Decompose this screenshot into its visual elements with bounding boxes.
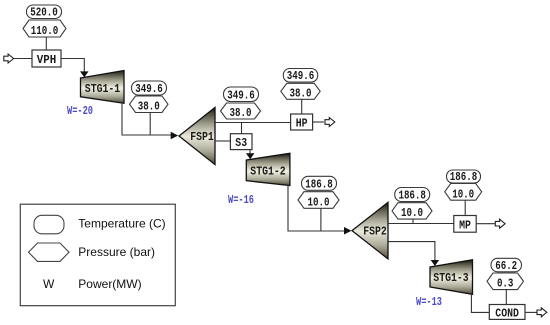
wire: input to VPH <box>14 58 32 60</box>
pressure indicator 10.0 (MP stream) <box>392 203 432 221</box>
svg-text:STG1-1: STG1-1 <box>85 83 120 96</box>
arrowhead: into FSP2 <box>344 227 352 235</box>
pressure indicator 110.0 (feed) <box>23 20 66 38</box>
wire: indicators to MP <box>464 200 466 215</box>
temperature indicator 349.6 (STG1-1 outlet) <box>132 81 167 96</box>
svg-text:W=-13: W=-13 <box>416 296 442 309</box>
temperature indicator 186.8 (MP stream) <box>395 188 430 203</box>
wire: indicators to COND <box>505 290 507 305</box>
splitter FSP1 <box>179 108 215 165</box>
svg-text:520.0: 520.0 <box>30 7 58 20</box>
wire: indicator tap STG1-1 outlet <box>149 113 151 136</box>
turbine STG1-3 <box>430 260 473 295</box>
svg-text:STG1-3: STG1-3 <box>433 272 468 285</box>
block heater VPH <box>32 50 61 67</box>
block block S3 <box>230 134 252 151</box>
svg-text:10.0: 10.0 <box>452 188 474 201</box>
svg-text:W: W <box>43 277 55 291</box>
arrowhead: into STG1-2 <box>246 153 255 159</box>
block block MP <box>454 216 476 233</box>
temperature indicator 349.6 (above HP) <box>283 69 317 84</box>
arrowhead: into STG1-3 <box>431 260 440 266</box>
temperature indicator 349.6 (above S3) <box>224 87 259 103</box>
svg-text:349.6: 349.6 <box>287 70 315 83</box>
wire: FSP2 to STG1-3 <box>388 242 435 260</box>
output arrow MP <box>495 219 505 228</box>
temperature indicator 186.8 (STG1-2 outlet) <box>302 176 337 191</box>
wire: indicators to HP <box>301 99 303 114</box>
wire: HP outlet <box>313 121 324 123</box>
svg-text:186.8: 186.8 <box>398 190 426 203</box>
svg-text:VPH: VPH <box>37 54 57 67</box>
temperature indicator 520.0 (feed) <box>27 5 62 20</box>
temperature indicator 186.8 (above MP) <box>447 170 481 184</box>
wire: FSP1 to HP <box>215 122 291 124</box>
wire: STG1-1 to FSP1 <box>122 103 171 135</box>
pressure indicator 10.0 (STG1-2 outlet) <box>298 192 339 210</box>
svg-text:W=-20: W=-20 <box>67 105 93 118</box>
wire: MP outlet <box>476 223 495 225</box>
output arrow HP <box>325 118 335 127</box>
svg-text:STG1-2: STG1-2 <box>250 166 285 179</box>
legend pressure symbol <box>29 243 70 261</box>
wire: indicators to VPH <box>45 37 47 50</box>
svg-text:0.3: 0.3 <box>497 278 514 291</box>
svg-text:66.2: 66.2 <box>495 260 517 273</box>
wire: FSP2 to MP <box>388 223 454 225</box>
block block HP <box>291 114 313 131</box>
svg-text:S3: S3 <box>235 137 247 150</box>
svg-text:186.8: 186.8 <box>450 171 478 184</box>
svg-text:10.0: 10.0 <box>308 196 330 209</box>
svg-text:Temperature (C): Temperature (C) <box>78 217 165 231</box>
svg-text:FSP2: FSP2 <box>363 226 387 239</box>
svg-text:10.0: 10.0 <box>401 207 423 220</box>
turbine STG1-2 <box>246 153 290 185</box>
wire: S3 to STG1-2 <box>249 150 251 154</box>
svg-text:HP: HP <box>296 118 308 131</box>
splitter FSP2 <box>352 202 388 259</box>
output arrow COND <box>537 308 547 317</box>
svg-text:186.8: 186.8 <box>305 178 333 191</box>
svg-text:110.0: 110.0 <box>31 25 59 38</box>
svg-text:W=-16: W=-16 <box>228 194 254 207</box>
wire: HP stream to S3 <box>241 123 243 134</box>
wire: COND outlet <box>525 311 537 313</box>
svg-text:Power(MW): Power(MW) <box>78 277 141 291</box>
svg-text:COND: COND <box>495 308 519 321</box>
svg-text:38.0: 38.0 <box>230 107 252 120</box>
arrowhead: into STG1-1 <box>80 71 89 77</box>
pressure indicator 38.0 (STG1-1 outlet) <box>130 96 169 114</box>
pressure indicator 38.0 (above S3) <box>221 103 261 120</box>
pressure indicator 10.0 (above MP) <box>445 184 482 202</box>
svg-text:FSP1: FSP1 <box>190 131 214 144</box>
svg-text:Pressure (bar): Pressure (bar) <box>78 245 155 259</box>
input arrow IN <box>4 54 14 63</box>
pressure indicator 38.0 (above HP) <box>281 83 320 100</box>
wire: indicator tap STG1-2 outlet <box>320 208 322 231</box>
temperature indicator 66.2 (COND inlet) <box>491 258 522 273</box>
block block COND <box>489 305 525 321</box>
svg-text:349.6: 349.6 <box>227 90 255 103</box>
arrowhead: into FSP1 <box>171 132 179 140</box>
wire: indicator tap MP stream <box>412 219 414 223</box>
svg-text:MP: MP <box>459 219 471 232</box>
svg-text:349.6: 349.6 <box>135 83 163 96</box>
legend box <box>20 204 175 306</box>
pressure indicator 0.3 (COND inlet) <box>487 273 524 291</box>
wire: VPH to STG1-1 <box>61 59 84 73</box>
svg-text:38.0: 38.0 <box>138 101 160 114</box>
wire: STG1-3 to COND <box>471 294 489 312</box>
svg-text:38.0: 38.0 <box>290 87 312 100</box>
wire: FSP1 to S3 <box>215 140 230 142</box>
legend temperature symbol <box>34 215 64 234</box>
turbine STG1-1 <box>81 71 125 104</box>
wire: STG1-2 to FSP2 <box>288 185 345 231</box>
